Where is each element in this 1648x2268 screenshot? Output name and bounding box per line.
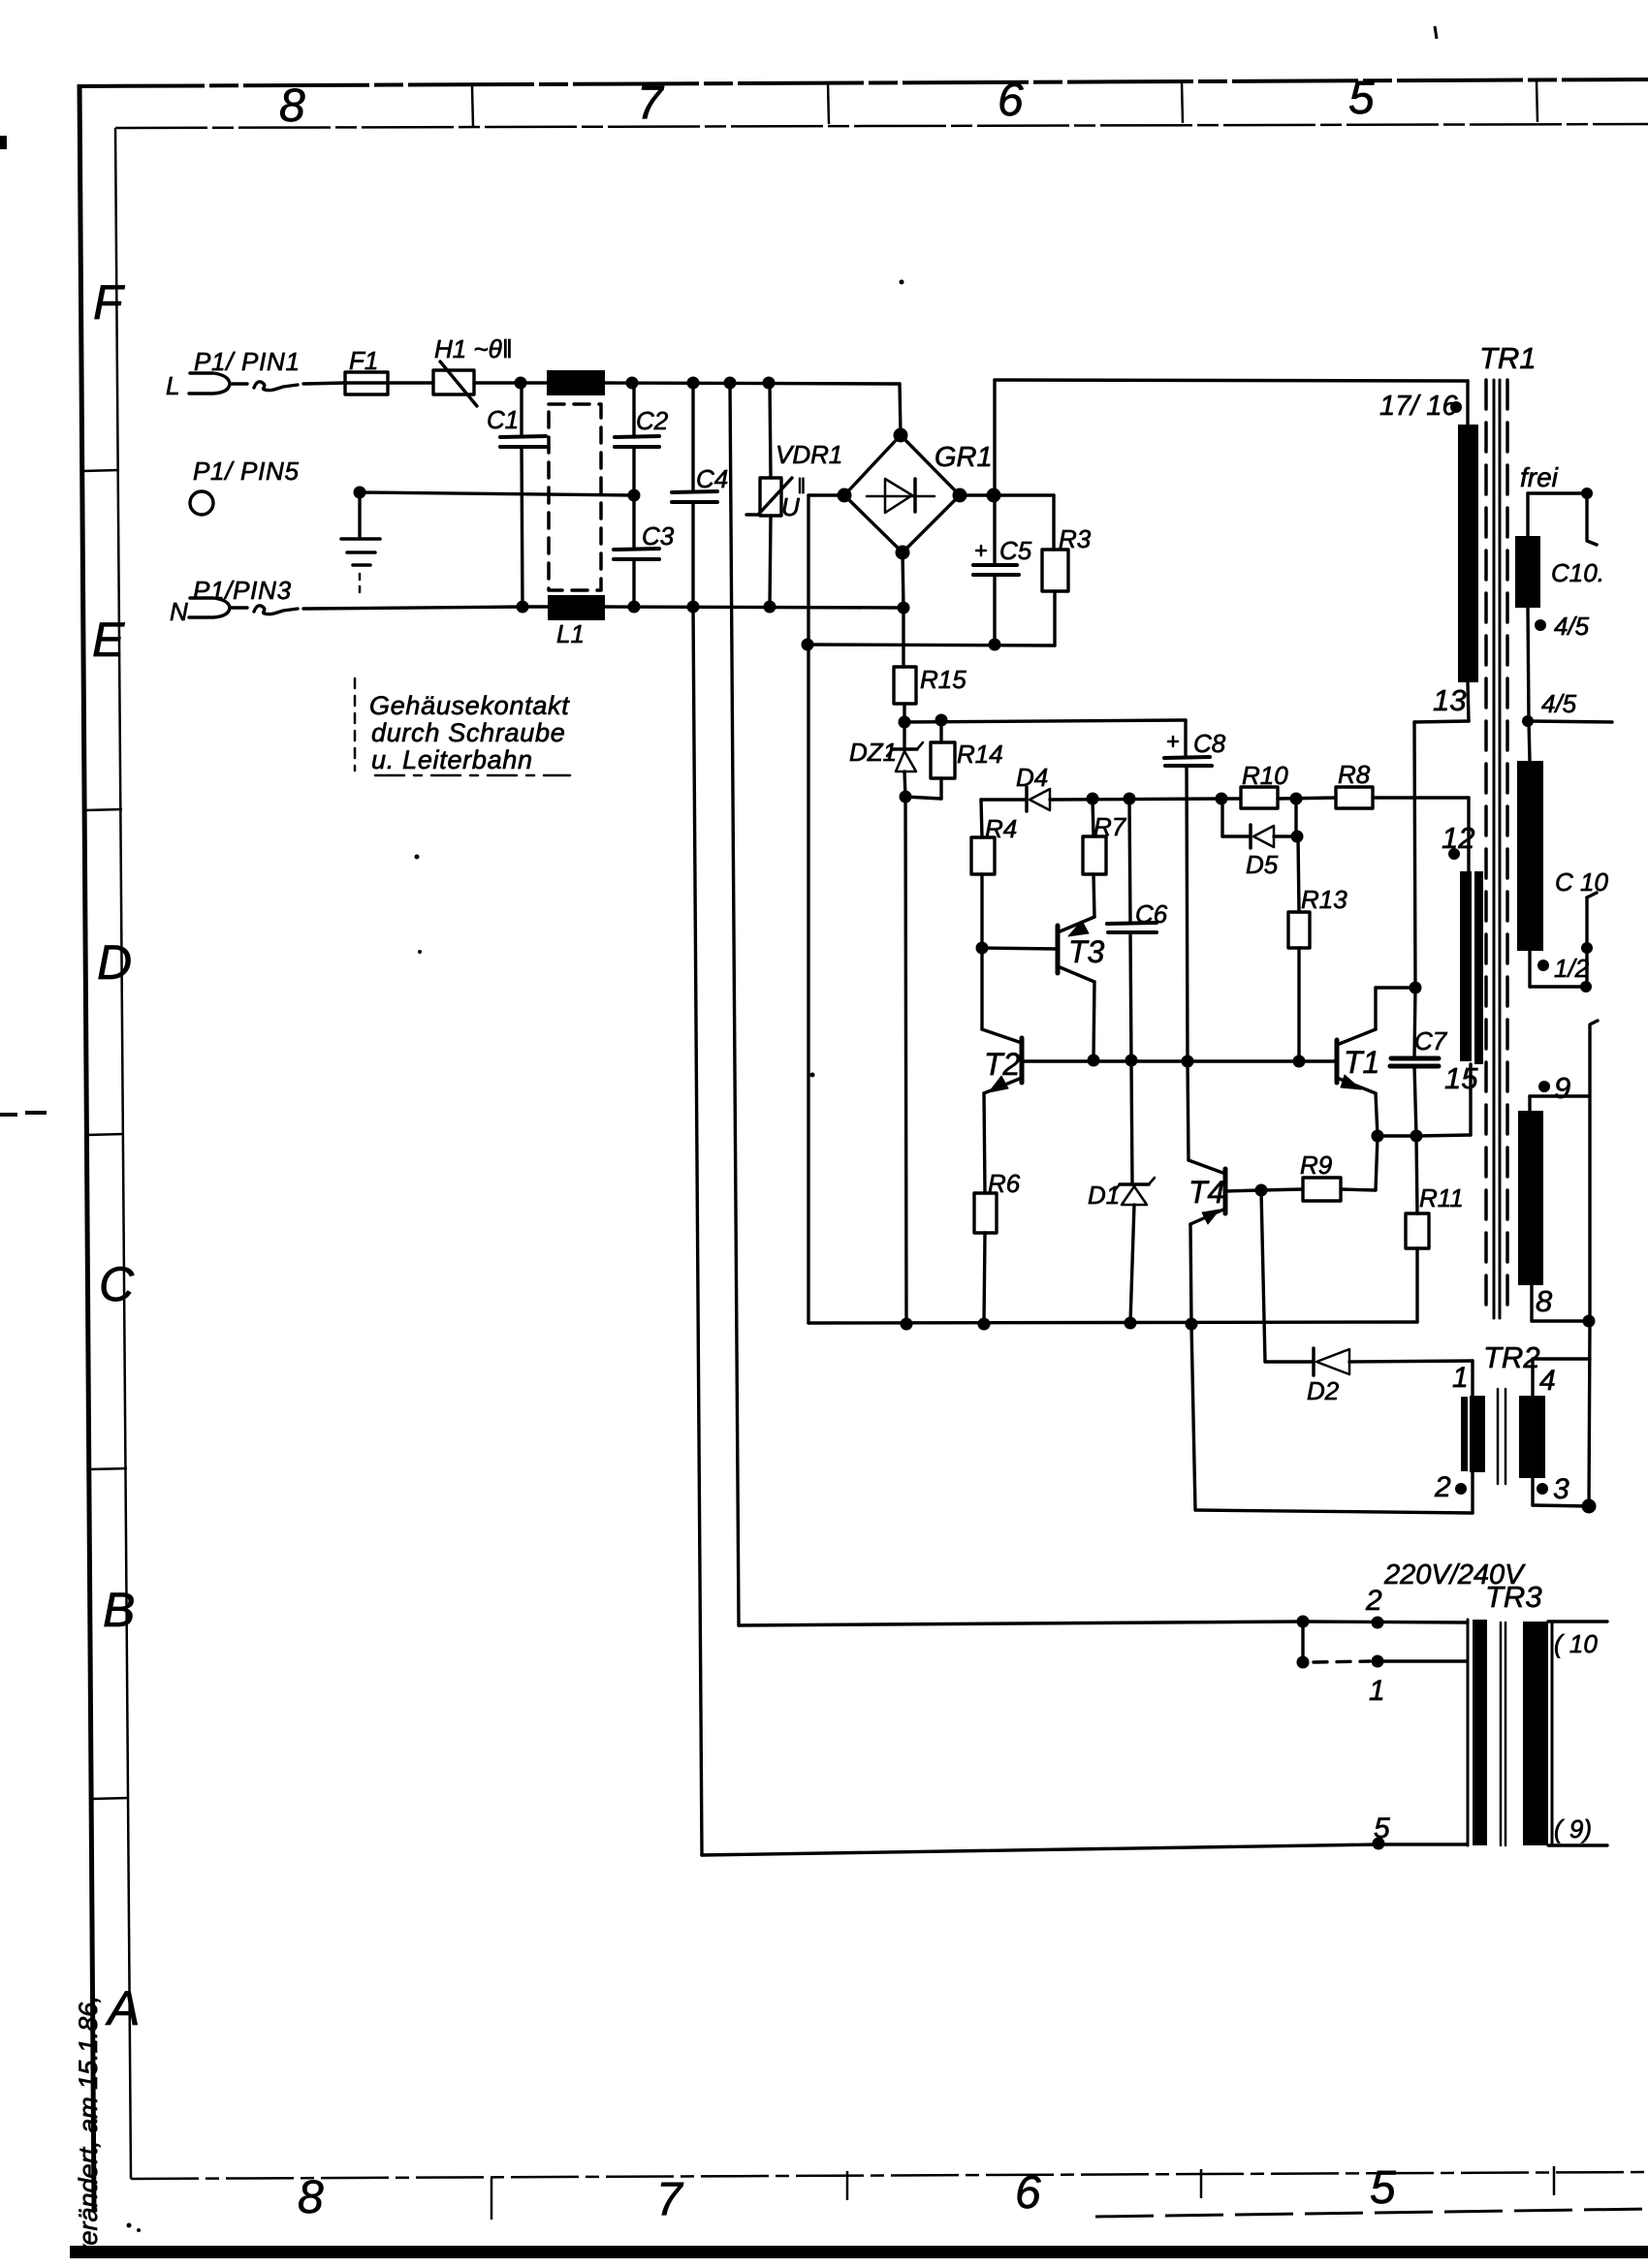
svg-text:R9: R9 bbox=[1300, 1150, 1332, 1180]
svg-text:E: E bbox=[92, 613, 125, 667]
svg-text:D4: D4 bbox=[1016, 763, 1048, 792]
svg-text:VDR1: VDR1 bbox=[776, 440, 842, 469]
svg-text:D2: D2 bbox=[1307, 1376, 1340, 1405]
svg-text:R3: R3 bbox=[1059, 524, 1092, 553]
svg-text:B: B bbox=[103, 1583, 135, 1637]
svg-text:5: 5 bbox=[1370, 2162, 1396, 2214]
svg-text:8: 8 bbox=[1536, 1284, 1553, 1318]
svg-text:durch Schraube: durch Schraube bbox=[371, 718, 565, 747]
svg-text:P1/PIN3: P1/PIN3 bbox=[193, 576, 292, 605]
svg-text:‖: ‖ bbox=[797, 474, 806, 498]
svg-text:9: 9 bbox=[1554, 1071, 1570, 1105]
svg-text:R11: R11 bbox=[1419, 1183, 1464, 1213]
svg-text:verändert, am 15.1.86‚: verändert, am 15.1.86‚ bbox=[74, 1997, 103, 2258]
svg-text:C2: C2 bbox=[636, 406, 669, 435]
svg-text:H1 ~θ‖: H1 ~θ‖ bbox=[434, 334, 513, 363]
svg-text:C3: C3 bbox=[642, 521, 675, 551]
svg-text:T4: T4 bbox=[1188, 1175, 1224, 1210]
svg-text:R6: R6 bbox=[988, 1169, 1021, 1198]
svg-text:C7: C7 bbox=[1414, 1026, 1448, 1055]
svg-text:12: 12 bbox=[1442, 821, 1474, 855]
svg-text:4/5: 4/5 bbox=[1554, 612, 1590, 641]
svg-text:C6: C6 bbox=[1135, 899, 1168, 929]
svg-text:TR3: TR3 bbox=[1485, 1580, 1542, 1614]
svg-text:8: 8 bbox=[279, 80, 305, 132]
svg-text:P1/ PIN1: P1/ PIN1 bbox=[194, 347, 301, 376]
svg-text:2: 2 bbox=[1365, 1585, 1382, 1617]
svg-text:T3: T3 bbox=[1068, 934, 1105, 969]
svg-text:Gehäusekontakt: Gehäusekontakt bbox=[369, 691, 570, 720]
svg-text:N: N bbox=[170, 597, 188, 626]
svg-text:L: L bbox=[166, 371, 179, 400]
svg-text:D5: D5 bbox=[1246, 850, 1279, 879]
svg-text:frei: frei bbox=[1520, 462, 1559, 492]
svg-text:( 10: ( 10 bbox=[1554, 1629, 1598, 1658]
svg-text:P1/ PIN5: P1/ PIN5 bbox=[193, 457, 300, 486]
svg-text:4/5: 4/5 bbox=[1541, 689, 1577, 718]
svg-text:6: 6 bbox=[1015, 2167, 1041, 2219]
svg-text:C10.: C10. bbox=[1551, 558, 1604, 587]
svg-text:C: C bbox=[99, 1257, 135, 1311]
svg-text:R7: R7 bbox=[1093, 812, 1127, 841]
svg-text:T2: T2 bbox=[984, 1047, 1021, 1082]
svg-text:1: 1 bbox=[1452, 1362, 1469, 1394]
svg-text:5: 5 bbox=[1374, 1812, 1390, 1844]
svg-text:T1: T1 bbox=[1344, 1045, 1379, 1080]
svg-text:DZ1: DZ1 bbox=[849, 738, 897, 767]
svg-text:F: F bbox=[93, 275, 125, 330]
svg-text:R10: R10 bbox=[1242, 761, 1288, 790]
svg-text:R13: R13 bbox=[1301, 885, 1347, 914]
svg-text:R15: R15 bbox=[920, 665, 967, 694]
svg-text:F1: F1 bbox=[349, 346, 378, 375]
svg-text:13: 13 bbox=[1433, 683, 1466, 717]
svg-text:5: 5 bbox=[1348, 73, 1375, 124]
svg-text:GR1: GR1 bbox=[935, 442, 993, 473]
svg-text:7: 7 bbox=[637, 78, 665, 129]
svg-text:L1: L1 bbox=[556, 619, 585, 648]
svg-text:R14: R14 bbox=[957, 740, 1003, 769]
svg-text:6: 6 bbox=[998, 75, 1024, 126]
svg-text:C4: C4 bbox=[696, 464, 728, 493]
svg-text:17/ 16: 17/ 16 bbox=[1379, 391, 1458, 422]
svg-text:1: 1 bbox=[1369, 1675, 1385, 1707]
svg-text:D: D bbox=[97, 935, 132, 990]
svg-text:D1: D1 bbox=[1088, 1181, 1120, 1210]
svg-text:4: 4 bbox=[1539, 1365, 1556, 1397]
svg-text:R8: R8 bbox=[1338, 760, 1371, 789]
svg-text:( 9): ( 9) bbox=[1554, 1814, 1592, 1843]
svg-text:7: 7 bbox=[656, 2174, 684, 2225]
svg-text:C1: C1 bbox=[487, 405, 519, 434]
svg-text:1/2: 1/2 bbox=[1554, 954, 1590, 983]
svg-text:3: 3 bbox=[1553, 1473, 1569, 1505]
svg-text:R4: R4 bbox=[985, 814, 1017, 843]
svg-text:u. Leiterbahn: u. Leiterbahn bbox=[371, 745, 533, 774]
svg-text:A: A bbox=[105, 1981, 140, 2035]
svg-text:15: 15 bbox=[1444, 1061, 1478, 1095]
svg-text:2: 2 bbox=[1434, 1471, 1451, 1503]
svg-text:C 10: C 10 bbox=[1555, 867, 1608, 897]
svg-text:C8: C8 bbox=[1193, 729, 1226, 758]
svg-text:C5: C5 bbox=[999, 536, 1032, 565]
svg-text:TR1: TR1 bbox=[1479, 341, 1537, 375]
svg-text:8: 8 bbox=[298, 2172, 324, 2223]
svg-text:TR2: TR2 bbox=[1483, 1340, 1540, 1374]
